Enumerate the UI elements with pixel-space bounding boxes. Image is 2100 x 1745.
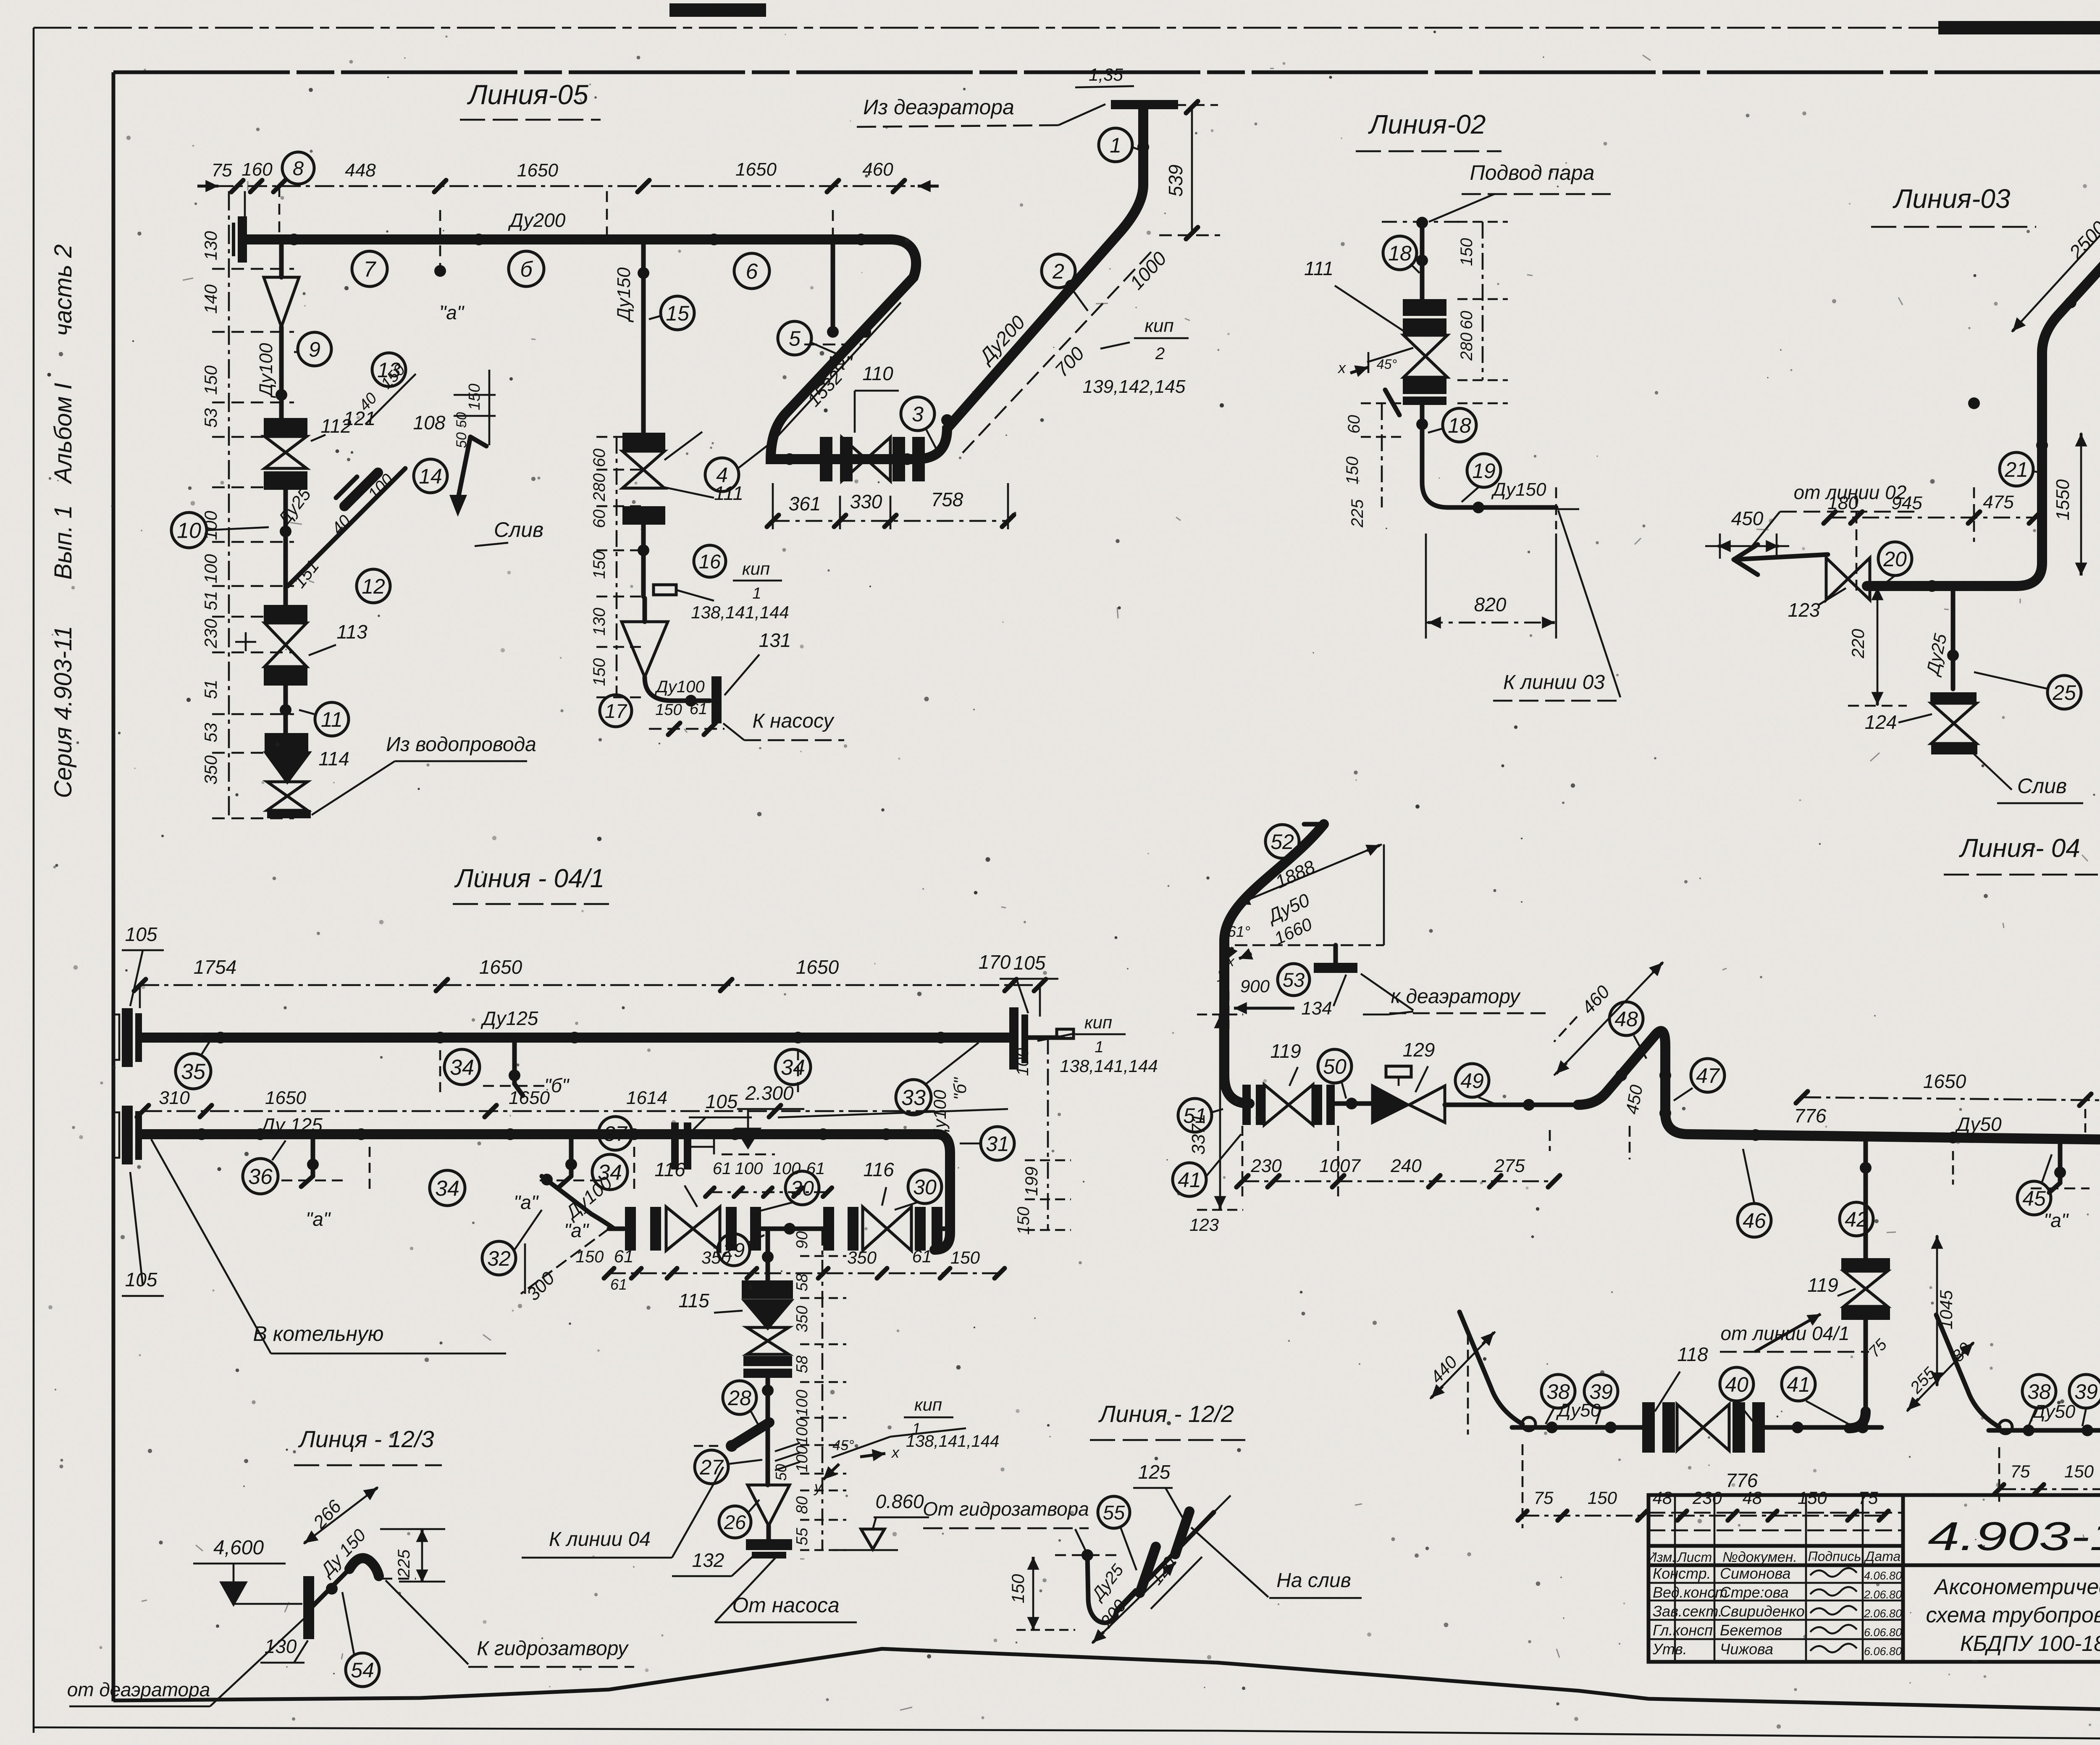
svg-text:170: 170: [979, 951, 1011, 973]
svg-text:Ду50: Ду50: [1954, 1113, 2001, 1135]
svg-text:138,141,144: 138,141,144: [906, 1432, 999, 1451]
svg-text:1650: 1650: [265, 1088, 306, 1108]
svg-text:К гидрозатвору: К гидрозатвору: [477, 1637, 629, 1660]
svg-text:Линия-03: Линия-03: [1893, 184, 2011, 214]
svg-text:Свириденко: Свириденко: [1720, 1603, 1805, 1620]
svg-text:35: 35: [181, 1060, 206, 1084]
svg-text:Стре:ова: Стре:ова: [1720, 1584, 1789, 1601]
svg-text:54: 54: [351, 1658, 374, 1682]
svg-text:80: 80: [793, 1496, 811, 1514]
svg-text:Вед.конст: Вед.конст: [1653, 1584, 1727, 1601]
svg-text:776: 776: [1726, 1469, 1758, 1491]
svg-text:350: 350: [793, 1306, 811, 1332]
svg-text:К линии 03: К линии 03: [1503, 671, 1605, 694]
svg-text:350: 350: [847, 1248, 877, 1267]
svg-text:На слив: На слив: [1276, 1569, 1351, 1592]
svg-text:Слив: Слив: [494, 518, 543, 541]
svg-text:Ду100: Ду100: [654, 678, 704, 696]
svg-text:61: 61: [912, 1246, 932, 1266]
svg-text:61: 61: [690, 700, 707, 718]
svg-text:1650: 1650: [1923, 1070, 1966, 1092]
svg-text:12: 12: [362, 575, 385, 598]
svg-text:"а": "а": [439, 302, 465, 323]
svg-text:51: 51: [201, 591, 220, 611]
svg-text:Чижова: Чижова: [1720, 1640, 1773, 1658]
svg-text:108: 108: [413, 412, 446, 434]
svg-text:Ду150: Ду150: [1491, 479, 1546, 500]
svg-text:2.300: 2.300: [745, 1082, 794, 1104]
svg-text:275: 275: [1494, 1156, 1525, 1176]
svg-text:45°: 45°: [832, 1438, 854, 1453]
svg-text:Линця - 12/3: Линця - 12/3: [298, 1426, 434, 1452]
svg-text:75: 75: [212, 160, 232, 181]
svg-text:К линии 04: К линии 04: [549, 1528, 651, 1551]
svg-text:Линия-02: Линия-02: [1368, 109, 1486, 139]
svg-text:18: 18: [1388, 242, 1412, 265]
svg-text:124: 124: [1865, 711, 1897, 733]
svg-text:3371: 3371: [1188, 1114, 1209, 1155]
svg-text:45°: 45°: [1377, 357, 1397, 372]
svg-text:1650: 1650: [479, 956, 522, 978]
svg-text:60: 60: [590, 449, 609, 468]
svg-text:350: 350: [201, 755, 220, 785]
svg-text:113: 113: [336, 621, 367, 643]
svg-text:48: 48: [1614, 1007, 1638, 1031]
svg-text:Констр.: Констр.: [1653, 1565, 1711, 1582]
svg-text:75: 75: [1534, 1488, 1554, 1508]
svg-text:2: 2: [1155, 344, 1165, 363]
svg-text:"а": "а": [2044, 1209, 2069, 1231]
svg-text:900: 900: [1240, 976, 1270, 996]
svg-text:1: 1: [1110, 134, 1121, 157]
svg-text:Гл.консп.: Гл.консп.: [1653, 1621, 1717, 1639]
svg-text:3: 3: [912, 402, 924, 426]
svg-text:Симонова: Симонова: [1720, 1565, 1791, 1582]
svg-text:"а": "а": [306, 1208, 331, 1230]
svg-text:100: 100: [773, 1159, 801, 1178]
svg-text:5: 5: [789, 327, 801, 350]
svg-text:6.06.80: 6.06.80: [1864, 1626, 1902, 1639]
svg-text:часть 2: часть 2: [50, 244, 77, 336]
svg-text:№докумен.: №докумен.: [1722, 1549, 1797, 1565]
svg-text:Ду200: Ду200: [508, 209, 566, 231]
svg-text:0.860: 0.860: [875, 1490, 924, 1512]
svg-text:37: 37: [604, 1122, 628, 1146]
svg-text:100: 100: [793, 1390, 811, 1416]
svg-text:1614: 1614: [626, 1088, 667, 1108]
svg-text:кип: кип: [1144, 315, 1173, 336]
svg-text:820: 820: [1474, 594, 1507, 615]
svg-text:Слив: Слив: [2017, 774, 2067, 798]
svg-text:Из деаэратора: Из деаэратора: [863, 95, 1014, 119]
svg-text:539: 539: [1165, 165, 1186, 197]
svg-text:Лист: Лист: [1677, 1550, 1712, 1565]
svg-text:111: 111: [1304, 258, 1333, 279]
svg-text:Ду50: Ду50: [1556, 1400, 1601, 1421]
svg-text:55: 55: [1103, 1501, 1125, 1524]
svg-text:1: 1: [752, 585, 761, 602]
svg-text:17: 17: [605, 700, 627, 722]
svg-text:123: 123: [1788, 599, 1820, 621]
svg-text:150: 150: [1588, 1488, 1617, 1508]
svg-text:160: 160: [241, 159, 273, 180]
svg-text:60: 60: [1457, 311, 1476, 330]
svg-text:100: 100: [793, 1418, 811, 1445]
svg-text:x: x: [891, 1444, 900, 1461]
svg-text:114: 114: [318, 748, 349, 770]
svg-text:Ду100: Ду100: [256, 343, 276, 398]
svg-text:Зав.сект.: Зав.сект.: [1653, 1603, 1722, 1620]
svg-text:150: 150: [1798, 1488, 1827, 1508]
svg-text:105: 105: [706, 1091, 738, 1112]
svg-text:52: 52: [1270, 830, 1294, 854]
svg-text:В котельную: В котельную: [253, 1322, 383, 1346]
svg-text:134: 134: [1301, 998, 1332, 1019]
svg-text:50: 50: [1323, 1055, 1347, 1078]
svg-text:230: 230: [1692, 1488, 1722, 1508]
svg-text:9: 9: [309, 338, 320, 361]
svg-text:10: 10: [177, 519, 201, 543]
svg-text:Бекетов: Бекетов: [1720, 1621, 1782, 1639]
svg-text:119: 119: [1270, 1040, 1301, 1062]
svg-text:Ду125: Ду125: [480, 1007, 538, 1029]
svg-text:К насосу: К насосу: [753, 710, 835, 732]
svg-text:150: 150: [1008, 1574, 1028, 1603]
svg-text:28: 28: [727, 1386, 751, 1410]
svg-text:139,142,145: 139,142,145: [1083, 376, 1186, 397]
svg-text:39: 39: [2074, 1380, 2098, 1403]
svg-text:230: 230: [201, 618, 220, 649]
svg-text:27: 27: [699, 1456, 724, 1479]
svg-text:38: 38: [2027, 1380, 2051, 1403]
svg-text:Аксонометрическая: Аксонометрическая: [1933, 1575, 2100, 1599]
svg-text:46: 46: [1743, 1209, 1766, 1233]
svg-text:Утв.: Утв.: [1652, 1640, 1687, 1658]
svg-text:61: 61: [614, 1246, 634, 1266]
svg-text:50: 50: [772, 1464, 790, 1481]
svg-text:150: 150: [655, 701, 682, 719]
svg-text:105: 105: [125, 923, 157, 945]
svg-text:58: 58: [793, 1356, 811, 1373]
svg-text:330: 330: [850, 491, 882, 512]
svg-text:Линия- 04: Линия- 04: [1958, 834, 2080, 863]
svg-text:129: 129: [1403, 1039, 1435, 1061]
svg-text:21: 21: [2004, 458, 2028, 481]
svg-text:60: 60: [590, 510, 609, 528]
svg-text:1: 1: [1095, 1038, 1103, 1056]
svg-text:225: 225: [395, 1549, 413, 1578]
svg-text:45: 45: [2022, 1187, 2046, 1210]
svg-text:116: 116: [654, 1159, 685, 1180]
svg-text:кип: кип: [914, 1395, 942, 1414]
svg-text:448: 448: [345, 160, 376, 181]
svg-text:кип: кип: [742, 559, 770, 578]
svg-text:280: 280: [1457, 333, 1476, 361]
svg-text:Дата: Дата: [1864, 1549, 1900, 1564]
svg-text:Линия - 12/2: Линия - 12/2: [1098, 1401, 1234, 1427]
svg-text:131: 131: [759, 629, 791, 651]
svg-text:1650: 1650: [796, 956, 839, 978]
svg-text:150: 150: [590, 551, 609, 579]
svg-text:130: 130: [201, 231, 220, 260]
svg-text:150: 150: [1457, 238, 1476, 266]
svg-text:150: 150: [201, 365, 220, 395]
svg-text:От насоса: От насоса: [732, 1593, 839, 1617]
svg-text:"а": "а": [564, 1219, 590, 1241]
svg-text:18: 18: [1448, 414, 1471, 437]
svg-text:7: 7: [364, 258, 377, 282]
svg-text:111: 111: [714, 482, 743, 504]
svg-text:758: 758: [931, 489, 963, 510]
svg-text:к деаэратору: к деаэратору: [1391, 986, 1521, 1008]
svg-text:119: 119: [1807, 1274, 1838, 1296]
svg-text:90: 90: [793, 1231, 811, 1249]
svg-text:225: 225: [1348, 499, 1367, 528]
svg-text:19: 19: [1472, 459, 1496, 483]
svg-text:40: 40: [1725, 1373, 1748, 1396]
svg-text:От гидрозатвора: От гидрозатвора: [923, 1498, 1089, 1520]
svg-text:51: 51: [201, 680, 220, 699]
svg-text:53: 53: [201, 723, 220, 743]
svg-text:41: 41: [1178, 1168, 1201, 1192]
svg-text:11: 11: [321, 708, 343, 731]
svg-text:220: 220: [1848, 628, 1868, 659]
svg-text:150: 150: [950, 1248, 980, 1267]
svg-text:100: 100: [201, 510, 220, 540]
svg-text:схема трубопроводов: схема трубопроводов: [1926, 1603, 2100, 1627]
svg-text:140: 140: [201, 284, 220, 314]
svg-text:123: 123: [1189, 1215, 1219, 1235]
svg-text:кип: кип: [1084, 1012, 1112, 1032]
svg-text:1,35: 1,35: [1089, 65, 1123, 84]
svg-text:240: 240: [1390, 1156, 1422, 1176]
svg-text:125: 125: [1138, 1461, 1171, 1483]
svg-text:2.06.80: 2.06.80: [1864, 1588, 1902, 1601]
svg-text:Серия 4.903-11: Серия 4.903-11: [50, 626, 77, 798]
svg-text:33: 33: [901, 1086, 926, 1110]
svg-text:280: 280: [590, 473, 609, 502]
svg-text:110: 110: [862, 363, 893, 384]
svg-text:1550: 1550: [2053, 479, 2073, 520]
svg-text:100: 100: [201, 554, 220, 583]
svg-text:100: 100: [735, 1159, 763, 1178]
svg-text:Вып. 1: Вып. 1: [50, 505, 77, 580]
svg-text:47: 47: [1696, 1064, 1720, 1088]
svg-text:138,141,144: 138,141,144: [691, 602, 789, 622]
svg-text:4.903-11-В.1- 13: 4.903-11-В.1- 13: [1928, 1514, 2100, 1559]
svg-text:Ду150: Ду150: [614, 267, 634, 323]
svg-text:30: 30: [913, 1175, 937, 1199]
svg-text:2: 2: [1052, 260, 1064, 283]
svg-text:Ду100: Ду100: [930, 1090, 950, 1143]
svg-text:Подпись: Подпись: [1808, 1549, 1861, 1564]
svg-text:34: 34: [435, 1177, 459, 1201]
svg-text:450: 450: [1731, 507, 1764, 529]
svg-text:Изм.: Изм.: [1647, 1550, 1676, 1565]
svg-text:100: 100: [1013, 1048, 1032, 1076]
svg-text:26: 26: [724, 1511, 746, 1533]
svg-text:4.06.80: 4.06.80: [1864, 1569, 1902, 1582]
svg-text:115: 115: [678, 1290, 709, 1311]
svg-text:16: 16: [699, 550, 721, 573]
svg-text:53: 53: [201, 408, 220, 428]
svg-text:15: 15: [666, 302, 689, 325]
svg-text:1650: 1650: [509, 1088, 550, 1108]
svg-text:от линии 02: от линии 02: [1794, 481, 1907, 503]
svg-text:"б": "б": [950, 1077, 970, 1100]
svg-text:199: 199: [1021, 1167, 1041, 1196]
svg-text:60: 60: [1345, 415, 1363, 434]
svg-text:1007: 1007: [1319, 1156, 1361, 1176]
svg-text:"а": "а": [828, 352, 853, 374]
svg-text:Линия - 04/1: Линия - 04/1: [454, 864, 604, 893]
svg-text:4,600: 4,600: [213, 1537, 264, 1559]
svg-text:310: 310: [159, 1088, 190, 1108]
svg-text:776: 776: [1794, 1105, 1827, 1127]
svg-text:x: x: [1337, 359, 1347, 376]
svg-text:49: 49: [1460, 1069, 1484, 1093]
svg-text:230: 230: [1250, 1156, 1282, 1176]
svg-text:8: 8: [293, 157, 304, 179]
svg-text:150: 150: [590, 658, 609, 686]
svg-text:475: 475: [1983, 492, 2014, 512]
svg-text:Подвод пара: Подвод пара: [1470, 161, 1595, 184]
svg-text:6: 6: [746, 260, 758, 284]
svg-text:Ду50: Ду50: [2030, 1401, 2076, 1422]
svg-text:105: 105: [1013, 952, 1046, 974]
svg-text:6.06.80: 6.06.80: [1864, 1645, 1902, 1658]
svg-text:150: 150: [576, 1248, 604, 1266]
svg-text:КБДПУ 100-180: КБДПУ 100-180: [1960, 1632, 2100, 1656]
svg-text:132: 132: [692, 1549, 724, 1571]
svg-text:41: 41: [1787, 1373, 1810, 1396]
svg-text:55: 55: [793, 1527, 811, 1545]
svg-text:150: 150: [466, 384, 483, 410]
svg-text:б: б: [520, 258, 533, 282]
svg-text:150: 150: [2064, 1461, 2094, 1481]
svg-text:130: 130: [590, 608, 609, 636]
svg-text:20: 20: [1883, 547, 1907, 571]
svg-text:"а": "а": [514, 1191, 539, 1213]
svg-text:34: 34: [781, 1056, 805, 1080]
svg-text:50: 50: [454, 412, 470, 428]
svg-text:36: 36: [248, 1165, 273, 1189]
svg-text:32: 32: [487, 1247, 511, 1270]
svg-text:14: 14: [419, 465, 442, 488]
svg-text:29: 29: [722, 1239, 745, 1261]
svg-text:1754: 1754: [194, 956, 236, 978]
svg-text:Альбом I: Альбом I: [50, 383, 77, 484]
svg-text:61: 61: [806, 1159, 825, 1178]
svg-text:116: 116: [863, 1159, 894, 1180]
svg-text:34: 34: [450, 1056, 474, 1080]
svg-text:75: 75: [1858, 1488, 1878, 1508]
svg-text:2.06.80: 2.06.80: [1864, 1607, 1902, 1620]
svg-text:138,141,144: 138,141,144: [1060, 1056, 1158, 1076]
svg-text:1650: 1650: [735, 159, 777, 180]
svg-text:100: 100: [793, 1445, 811, 1472]
svg-text:61°: 61°: [1228, 923, 1250, 940]
svg-text:53: 53: [1283, 969, 1305, 991]
svg-text:61: 61: [610, 1276, 627, 1293]
svg-text:118: 118: [1677, 1343, 1708, 1365]
svg-text:25: 25: [2052, 681, 2076, 704]
svg-text:48: 48: [1653, 1488, 1672, 1508]
svg-text:75: 75: [2011, 1461, 2030, 1481]
svg-text:Линия-05: Линия-05: [467, 79, 588, 110]
svg-text:y: y: [1217, 966, 1226, 982]
svg-text:58: 58: [793, 1274, 811, 1291]
svg-text:y: y: [813, 1478, 823, 1495]
svg-text:31: 31: [986, 1132, 1009, 1156]
svg-text:361: 361: [789, 493, 821, 515]
svg-text:от деаэратора: от деаэратора: [67, 1679, 210, 1700]
svg-text:1650: 1650: [517, 160, 558, 181]
svg-text:61: 61: [713, 1159, 732, 1178]
svg-text:Из водопровода: Из водопровода: [386, 733, 536, 756]
svg-text:130: 130: [265, 1635, 297, 1657]
